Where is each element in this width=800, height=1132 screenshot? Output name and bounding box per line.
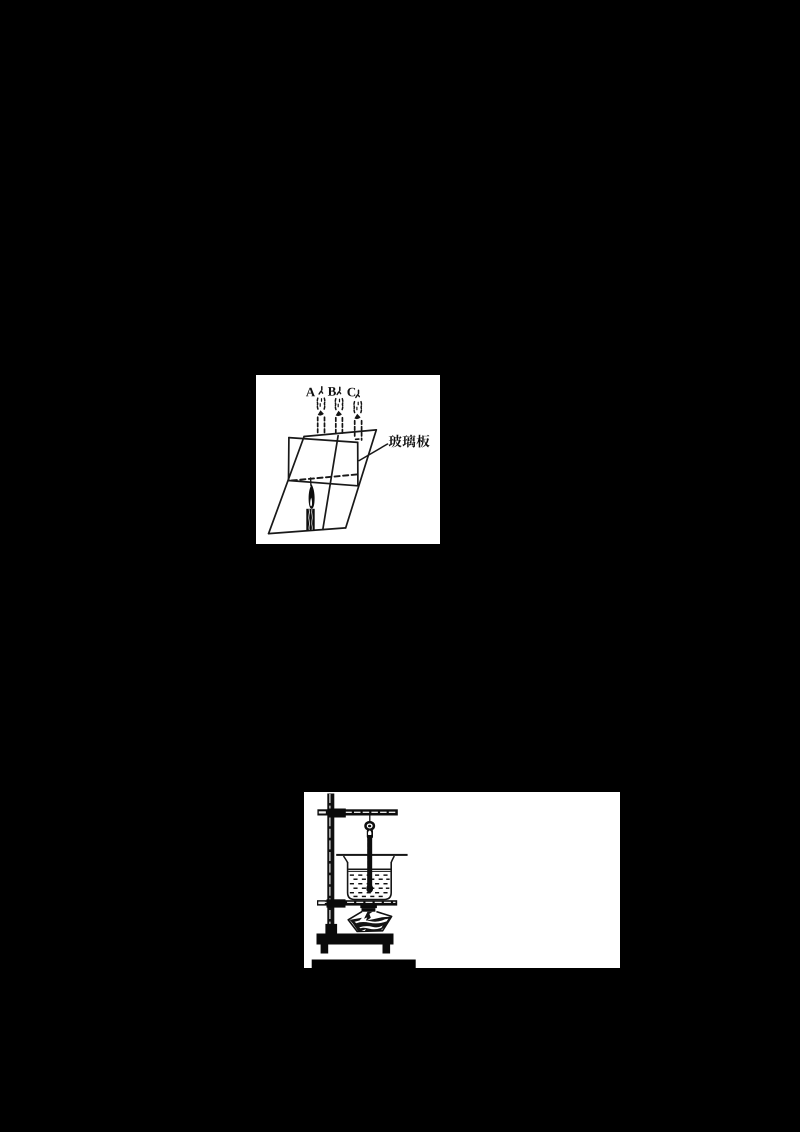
- dashed image candle B: [335, 387, 342, 433]
- alcohol in lamp (dark blotches): [350, 917, 391, 932]
- stand right foot: [383, 945, 391, 954]
- wire: table far edge: [304, 430, 376, 437]
- water surface line: [348, 868, 390, 870]
- top clamp block: [328, 809, 346, 818]
- hanger ring: [366, 822, 374, 830]
- candle flame: [309, 484, 315, 508]
- label C: [347, 388, 355, 397]
- hanger wire: [369, 816, 371, 823]
- wire: crease line through table: [323, 436, 338, 530]
- beaker right lip: [391, 856, 394, 863]
- thermometer bulb: [366, 884, 373, 893]
- wire: table left edge: [269, 437, 305, 534]
- rod collar at base: [325, 924, 337, 935]
- stand lower platform bar: [317, 900, 397, 905]
- beaker rim: [336, 854, 407, 856]
- wire: plate right edge: [357, 442, 359, 485]
- figure 2: heating experiment with iron stand, beaker, thermometer, alcohol lamp: [304, 792, 620, 968]
- stand base: [317, 934, 394, 945]
- glass plate front face: [289, 438, 358, 486]
- thermometer ticks: [367, 842, 369, 866]
- table plane (slanted parallelogram): [269, 430, 377, 534]
- alcohol lamp wick shadow: [364, 912, 373, 922]
- dashed image candle A: [317, 387, 324, 435]
- thermometer tube: [367, 837, 372, 887]
- candle flame inner glow: [310, 498, 312, 507]
- beaker left lip: [344, 856, 348, 863]
- thermometer neck: [367, 830, 373, 839]
- candle wick: [310, 478, 312, 486]
- wire: plate bottom edge: [289, 481, 358, 486]
- lower clamp block: [327, 899, 346, 907]
- alcohol lamp body: [348, 912, 391, 932]
- redacted caption bar: [312, 960, 416, 969]
- label 玻璃板 (drawn as glyph paths): [389, 435, 430, 448]
- candle body wax streaks: [308, 509, 311, 529]
- wire: plate top edge: [289, 438, 358, 443]
- alcohol lamp cap: [360, 906, 377, 909]
- candle body: [306, 509, 314, 531]
- water dashes: [350, 874, 390, 897]
- label A: [306, 388, 315, 397]
- stand top crossbar: [317, 809, 397, 815]
- wire: table right edge: [346, 430, 377, 528]
- dashed hidden bottom edge of glass plate: [292, 474, 359, 480]
- stand left foot: [321, 945, 329, 954]
- dashed image candle C: [354, 390, 362, 440]
- wire: plate left edge: [288, 438, 290, 481]
- thermometer tube redrawn over water dashes: [367, 835, 372, 887]
- stand vertical rod: [327, 794, 334, 934]
- figure 1: plane-mirror (glass plate) imaging experiment: [256, 375, 440, 544]
- label B: [328, 387, 336, 396]
- label pointer line to glass plate: [359, 444, 387, 461]
- beaker body: [348, 862, 392, 900]
- wire: table near edge: [269, 528, 346, 534]
